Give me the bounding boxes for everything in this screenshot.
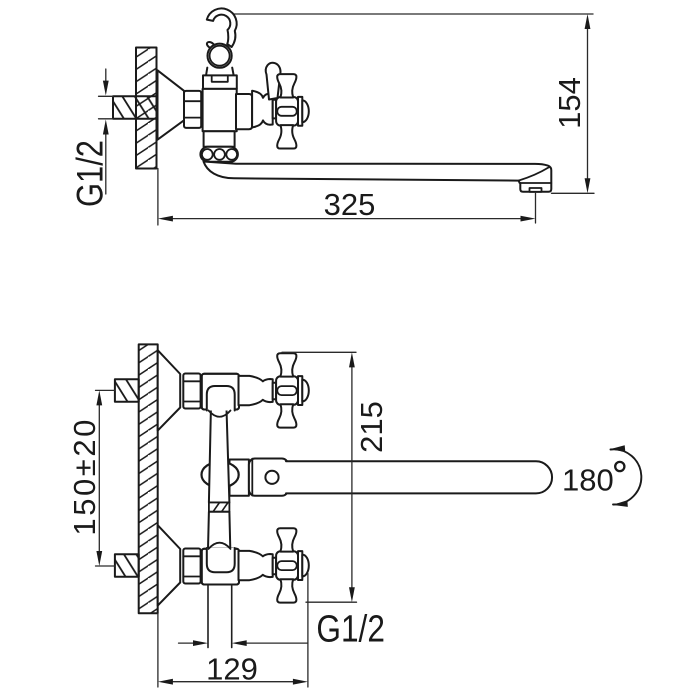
central column lower <box>208 512 230 550</box>
hanger ring outer <box>208 44 232 68</box>
top inlet pipe stub <box>115 379 139 401</box>
150±20 extension lines <box>96 390 115 566</box>
top hex nut <box>183 374 200 409</box>
valve bonnet (side view) <box>252 91 273 128</box>
hanger ring inner <box>210 46 230 66</box>
215 bottom extension line <box>306 601 357 603</box>
body lower section <box>204 131 235 147</box>
spout arm (front view) <box>286 461 552 493</box>
svg-text:154: 154 <box>552 77 587 129</box>
hanger ring spur <box>207 42 215 50</box>
wall (hatched, side view) <box>136 48 157 169</box>
valve stem collar <box>273 100 276 119</box>
wall (hatched, front view) <box>139 344 158 613</box>
svg-text:129: 129 <box>206 652 258 687</box>
column dome cap bottom <box>207 548 235 572</box>
215 top extension line <box>282 351 356 353</box>
325 left extension line <box>157 169 159 226</box>
hub band <box>277 386 296 395</box>
svg-text:215: 215 <box>354 401 389 453</box>
handle bottom spoke <box>277 404 296 427</box>
pipe edge extension lines <box>99 96 114 119</box>
bottom inlet pipe stub <box>115 554 139 576</box>
spout ring (stadium with 3 holes) <box>200 147 238 162</box>
column dome cap top <box>207 386 235 411</box>
bottom hex nut <box>183 549 200 584</box>
pivot tube <box>230 460 249 496</box>
svg-text:G1/2: G1/2 <box>70 140 111 207</box>
129 dimension line <box>171 681 295 683</box>
central column upper <box>209 409 230 503</box>
150±20 dimension line <box>98 404 100 554</box>
inlet pipe (hatched, through wall) <box>113 96 157 119</box>
column fillet top <box>209 411 231 417</box>
hanger hook <box>207 8 237 47</box>
G1/2 arrow above pipe <box>105 69 107 82</box>
215 dimension line <box>351 366 353 590</box>
handle top spoke <box>277 353 296 376</box>
180 degree rotation arc <box>611 449 642 504</box>
G1/2 dimension arrows <box>179 642 308 644</box>
aerator <box>530 188 542 192</box>
block outlines re-stroke <box>202 374 239 410</box>
154 bottom extension line <box>552 192 595 194</box>
cross handle (side view) <box>276 74 309 148</box>
spout (side view, long arm with outlet) <box>204 162 552 192</box>
handle hub <box>276 376 298 405</box>
129 right extension line <box>307 574 309 688</box>
spout end inner curve <box>519 167 550 181</box>
column fillet bottom <box>209 543 231 549</box>
bottom escutcheon cone <box>158 525 181 605</box>
stem collar <box>273 383 276 400</box>
154 dimension line <box>587 27 589 180</box>
faucet body (side view) <box>203 89 237 131</box>
325 right extension line <box>535 193 537 223</box>
pivot block <box>249 459 288 496</box>
129 left extension line <box>157 614 159 688</box>
svg-text:G1/2: G1/2 <box>316 609 385 651</box>
body top cap <box>203 75 237 89</box>
svg-text:325: 325 <box>324 187 376 222</box>
bottom valve bonnet chain + handle <box>239 528 309 602</box>
top valve body block (fill) <box>202 374 239 410</box>
valve connector (right of body) <box>236 94 252 129</box>
G1/2 arrow below pipe <box>105 133 107 195</box>
cap notch <box>212 76 228 82</box>
top escutcheon cone <box>158 350 181 430</box>
154 extension line (top, at hook) <box>219 13 593 15</box>
ball joint ellipse <box>202 462 239 488</box>
hanger legs <box>206 68 234 76</box>
escutcheon cone (side view) <box>158 70 185 139</box>
spout housing step line <box>520 182 551 184</box>
bottom valve body block (fill) <box>202 549 239 585</box>
handle back spoke (angled, behind) <box>266 63 281 100</box>
end cap <box>298 376 302 405</box>
325 dimension line <box>171 218 523 220</box>
svg-text:180: 180 <box>562 463 614 498</box>
pivot screw <box>265 471 278 484</box>
bonnet bell <box>239 376 273 405</box>
hex nut (side view) <box>184 91 201 128</box>
G1/2 extension lines (shower outlet) <box>208 585 232 648</box>
chamfer band <box>209 503 230 512</box>
